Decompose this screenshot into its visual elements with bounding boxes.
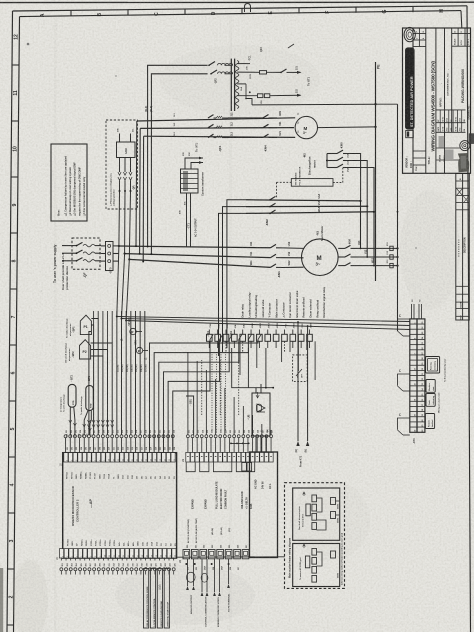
drawn checked cells xyxy=(436,147,460,149)
contactor -KM1 pole C xyxy=(271,264,277,267)
shield oval xyxy=(187,572,196,582)
BT1 wires xyxy=(84,411,88,435)
wire L1 bus xyxy=(119,246,271,248)
wire U13 riser xyxy=(357,247,398,249)
CT1 leads xyxy=(186,193,188,247)
thermistor dashed wire left xyxy=(277,181,292,183)
contactor -KM1 pole B xyxy=(271,254,277,257)
col B top mini rows xyxy=(413,33,426,35)
pressure sensor -BP1 xyxy=(80,315,91,334)
phase sequence relay dashed enclosure xyxy=(106,120,138,209)
wire V13 riser xyxy=(357,256,398,258)
relay coils row xyxy=(207,334,213,341)
junction L2 riser xyxy=(124,253,126,255)
wire secondary to PE xyxy=(252,103,376,106)
temperature sensor -BT2 xyxy=(68,384,76,407)
ladder X marks xyxy=(457,189,469,204)
current transformer -CT1 xyxy=(181,169,199,193)
riser 1L2 to transformer xyxy=(151,74,207,254)
XT3 left switches xyxy=(403,335,410,337)
PE junction xyxy=(374,103,376,105)
component RX filter xyxy=(258,94,263,98)
hole punch mark xyxy=(245,4,251,13)
transformer -TC1 secondary winding xyxy=(236,61,239,109)
BT2 wires xyxy=(69,407,71,434)
CT1 top leads xyxy=(185,158,203,169)
relay output contacts xyxy=(119,158,121,173)
heater wiring dashed enclosure xyxy=(285,483,345,589)
junction dots row xyxy=(230,443,232,445)
transformer tap 102 xyxy=(237,95,257,97)
motor M1 terminals right xyxy=(338,247,345,249)
upper heater arrow xyxy=(303,492,306,496)
frame inner left border xyxy=(14,17,20,632)
remote switch dashed box xyxy=(293,355,308,382)
frame right border inner xyxy=(460,11,463,28)
revision by date band xyxy=(436,109,466,111)
contactor -KM4 poles xyxy=(228,117,263,119)
stamp circle xyxy=(460,141,470,151)
frame outer left border xyxy=(7,11,13,632)
wire 101 to XT1 arrow xyxy=(293,71,301,73)
transformer tap 101 xyxy=(237,71,259,73)
UB small 24V boxes xyxy=(242,463,247,472)
wire U12 xyxy=(283,247,304,250)
frame right border outer xyxy=(467,6,471,632)
J4 pin dots xyxy=(185,563,187,565)
wire L3 bus xyxy=(129,259,270,267)
title block col dividers xyxy=(412,28,414,173)
AP bottom pin circles xyxy=(60,568,63,571)
scan top paper edge xyxy=(0,1,474,3)
diode bridge box xyxy=(252,393,270,436)
phase sequence relay module 4AM xyxy=(117,142,136,158)
J1 dashed risers xyxy=(201,360,203,415)
wire 2V bus xyxy=(246,205,367,207)
junction L1 riser xyxy=(118,245,120,247)
XT3 top leads xyxy=(411,304,413,319)
drawn stamp dark blob xyxy=(439,136,446,148)
circuit breaker -QF2 pole A xyxy=(209,62,215,66)
ladder lower rungs xyxy=(456,285,470,287)
temperature sensor -BT1 xyxy=(86,386,94,411)
arrow mark xyxy=(256,392,259,398)
horn symbol xyxy=(257,404,262,412)
scan streak artifacts xyxy=(54,16,57,632)
J1 pin entry circles row xyxy=(186,435,189,438)
shield oval 2 xyxy=(201,573,208,582)
contactor -KM2 poles xyxy=(270,196,276,199)
wire fan L2 xyxy=(140,127,294,130)
circuit breaker -QF2 pole B xyxy=(211,70,217,74)
microprocessor controller -AP box xyxy=(63,453,177,558)
thermistor dashed wire right xyxy=(333,182,343,184)
diode box wires down xyxy=(255,436,257,452)
revision ladder xyxy=(456,174,470,321)
wire 2U bus xyxy=(246,200,361,201)
frame inner top border xyxy=(20,11,462,17)
junction 2V xyxy=(366,205,368,207)
PE conductor vertical right xyxy=(375,62,377,281)
company name band xyxy=(406,48,415,129)
title block frame xyxy=(403,28,471,173)
wire W13 riser xyxy=(357,265,398,267)
scan specks xyxy=(27,43,30,46)
staircase top contacts xyxy=(258,334,261,340)
relay leads down to bus xyxy=(118,191,121,246)
contact -SA1 xyxy=(281,69,287,72)
remote control label boxes xyxy=(144,569,149,629)
contactor -KM3 left bus xyxy=(326,154,328,168)
fan motor -M2 xyxy=(295,116,317,138)
wire 102 to XT1 arrow xyxy=(281,94,301,96)
wire fan L1 xyxy=(137,118,295,121)
control comm wires xyxy=(201,559,203,592)
junction row at 318 xyxy=(116,316,118,318)
emergency stop -SB1 wire xyxy=(186,396,194,435)
risers power bus to control bus xyxy=(117,246,119,317)
terminal strip -XT0 xyxy=(106,242,114,271)
wire delta drop 2 xyxy=(223,207,247,352)
J1 connector brackets xyxy=(186,462,195,472)
ladder dotted marks xyxy=(458,239,459,240)
transformer -TC1 primary leads xyxy=(231,64,232,66)
sensor column upward stubs xyxy=(97,311,99,319)
frame outer top border xyxy=(13,6,468,11)
power supply unit -UB box xyxy=(250,452,278,558)
wire from KM3 down xyxy=(346,154,361,201)
long control bus 1 xyxy=(117,317,410,322)
choke winding line B xyxy=(218,72,233,74)
riser 1L1 to transformer xyxy=(148,65,208,246)
contactor -KM3 poles xyxy=(327,153,337,155)
wire 2W bus xyxy=(246,212,374,214)
wire W12 xyxy=(283,266,304,268)
wire delta drop 1 xyxy=(227,200,246,348)
pressure switch -SP2 xyxy=(136,347,142,353)
lower heater arrow xyxy=(303,544,306,548)
junction L3 riser xyxy=(128,258,130,260)
choke winding line A xyxy=(218,63,233,65)
feeder riser bundle xyxy=(116,311,118,435)
modbus wires xyxy=(214,559,216,592)
relay coil lower wires xyxy=(208,341,210,348)
transformer tap 1 xyxy=(237,63,250,65)
company logo xyxy=(404,27,415,41)
riser fan L3 xyxy=(142,136,144,261)
transformer -TC1 core xyxy=(230,59,232,111)
long control bus 2 xyxy=(122,319,410,326)
wire delta drop 3 xyxy=(219,213,247,356)
relay extra drops xyxy=(239,341,241,375)
scan dark edge bottom left xyxy=(0,568,3,632)
sensor BP2 wires xyxy=(91,343,113,435)
heater sub box upper xyxy=(293,488,340,540)
corner dark block xyxy=(469,133,474,144)
dotted option wires xyxy=(211,352,213,430)
wire L2 bus xyxy=(125,254,271,258)
notes box xyxy=(51,144,87,221)
sensor BP1 wires xyxy=(91,319,98,435)
analog output wires xyxy=(187,559,189,586)
contactor -KM1 pole A xyxy=(271,244,277,247)
col B bottom mini rows xyxy=(413,150,426,152)
wire V12 xyxy=(283,257,304,259)
band footer box xyxy=(406,131,414,138)
XT3 right option boxes xyxy=(426,357,440,374)
terminal strip -XT3 xyxy=(410,319,417,432)
relay leads to bus taps xyxy=(119,134,121,143)
right return bus xyxy=(397,104,399,331)
PE terminal wire xyxy=(228,559,230,584)
junction 2W xyxy=(373,211,375,213)
circuit breaker -QF dashed enclosure xyxy=(72,238,100,269)
bottom long wire xyxy=(177,556,285,558)
J1 riser wires xyxy=(187,352,189,435)
terminal blocks right xyxy=(390,246,393,250)
wires relays to XT3 risers xyxy=(289,341,291,352)
main motor -M1 xyxy=(302,239,339,276)
long control bus 3 xyxy=(126,321,410,330)
pressure sensor -BP2 xyxy=(80,340,91,359)
scale cells top right xyxy=(452,32,471,34)
sensor wire chevrons xyxy=(87,420,90,428)
diode box wires up xyxy=(255,388,257,393)
thermistor dashed box xyxy=(291,179,333,187)
wires pins to label boxes xyxy=(145,567,147,569)
riser fan L1 xyxy=(135,121,138,246)
stamp goblet xyxy=(458,153,469,172)
heater sub box lower xyxy=(293,544,340,587)
junction 2U xyxy=(359,200,361,202)
transformer tap mid xyxy=(237,83,246,85)
junction dot sec xyxy=(249,91,251,93)
riser fan L2 xyxy=(139,128,142,253)
fuse -FU1 xyxy=(260,71,267,74)
AP pin entry circles row xyxy=(64,435,67,438)
staircase distribution wires xyxy=(149,340,258,451)
circuit breaker -QF poles xyxy=(62,245,77,247)
wire fan L3 xyxy=(144,136,296,137)
wire M2 to PE line xyxy=(318,126,376,129)
pressure switch -SP1 xyxy=(130,328,136,334)
collector wires from relays xyxy=(232,348,274,388)
circuit breaker -QF1 poles xyxy=(208,115,214,118)
wires from -XT1 xyxy=(297,322,299,441)
